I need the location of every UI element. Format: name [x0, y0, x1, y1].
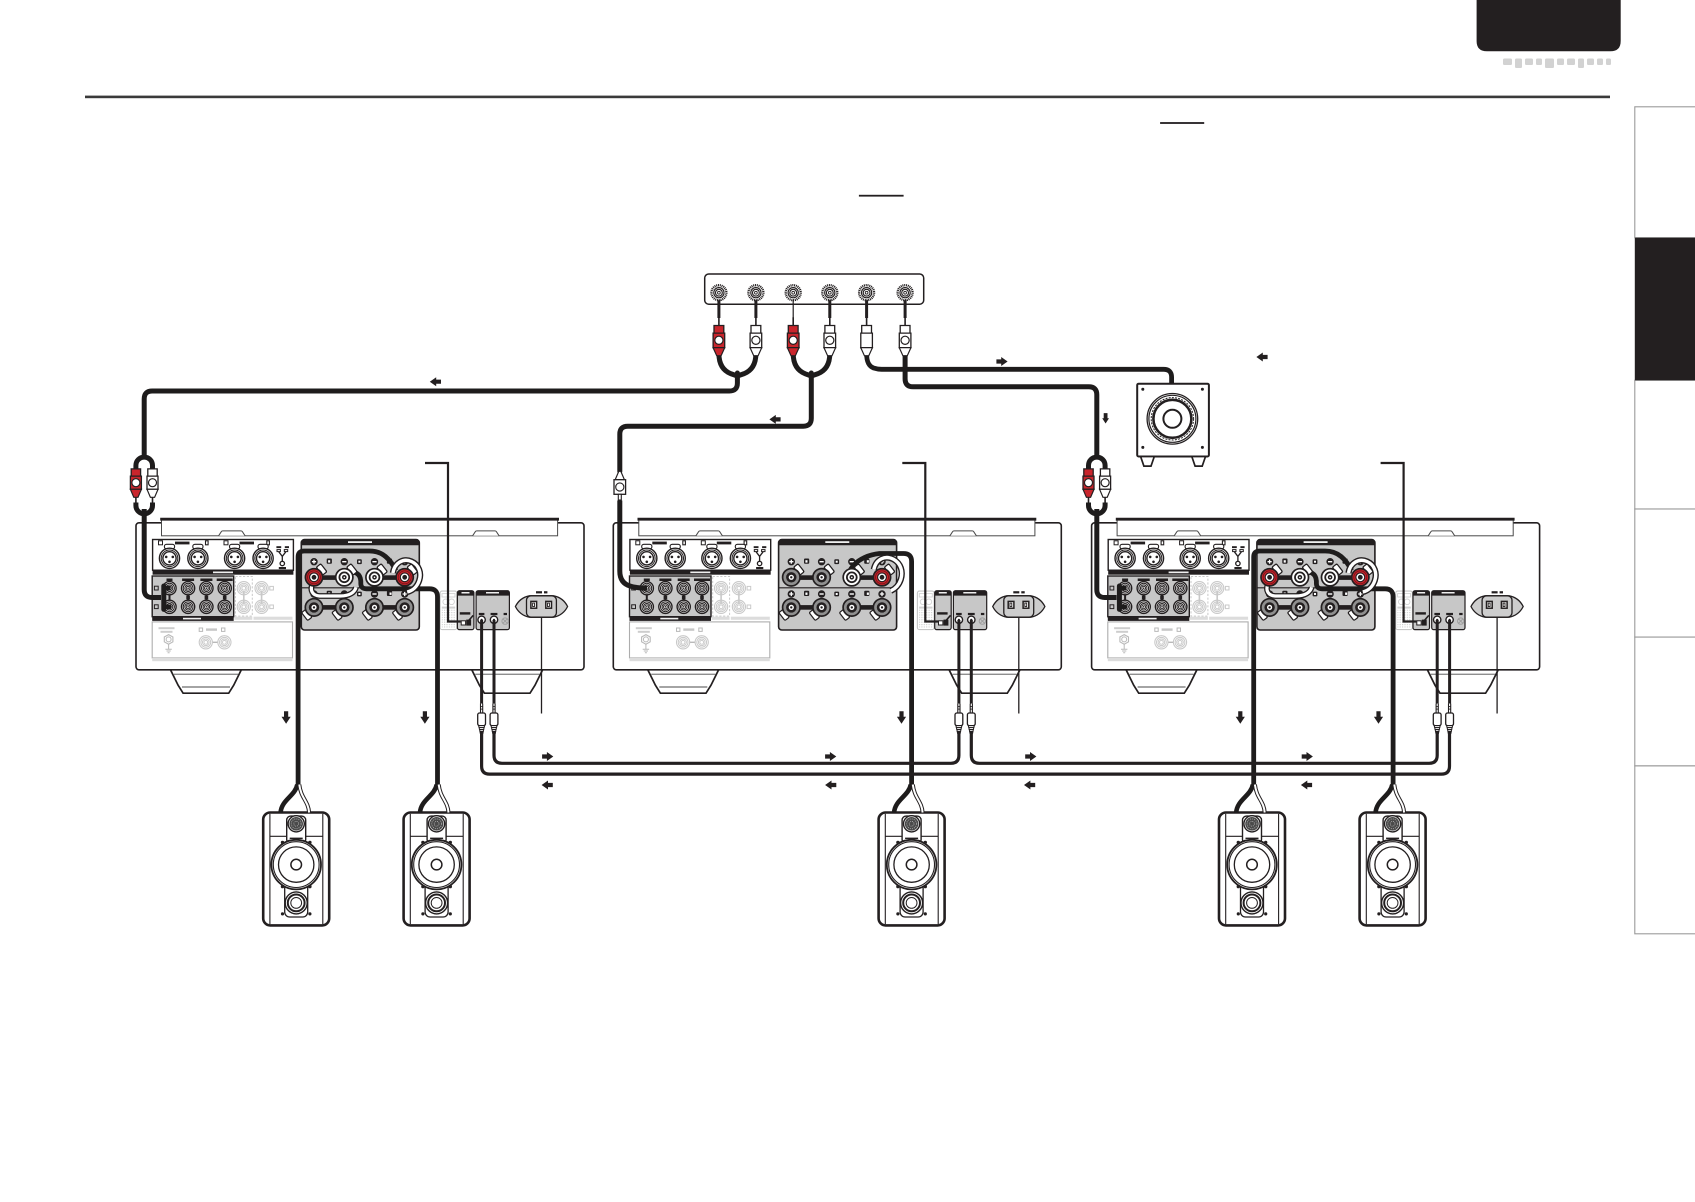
trigger cable amp1 in loop	[482, 731, 1450, 774]
down arrows above speakers	[282, 711, 291, 724]
input plug pair above amp 3	[1083, 457, 1111, 514]
speaker 4 wires	[1236, 785, 1253, 813]
trigger arrows right	[542, 752, 553, 761]
mono plug above amp 2	[614, 471, 626, 500]
speaker 2	[404, 813, 470, 926]
arrow right on route C	[996, 357, 1007, 366]
floating arrow left near subwoofer	[1256, 353, 1267, 362]
link underline mid	[859, 195, 904, 197]
black corner tab	[1477, 0, 1621, 51]
route D cable (to amp 3)	[905, 354, 1097, 457]
amp 2 speaker wires	[849, 554, 912, 787]
pre-out jacks	[711, 285, 726, 300]
amp 3 top posts	[1261, 564, 1373, 586]
amp 1 speaker wires	[298, 551, 437, 786]
trigger cable amp1 out to amp2 in	[494, 731, 959, 763]
route A cable (pair 1 to amp 1)	[144, 354, 756, 457]
pre-out plugs	[713, 317, 725, 355]
speaker 4	[1219, 813, 1285, 926]
route C cable (to subwoofer)	[867, 354, 1172, 385]
amplifier 1	[136, 463, 584, 733]
amplifier 2	[613, 463, 1061, 733]
arrow down beside route D	[1102, 413, 1109, 423]
amp 2 input cable into jack	[620, 501, 647, 589]
speaker 1	[263, 813, 329, 926]
trigger cable amp2 out to amp3 in	[971, 731, 1437, 763]
right sidebar active tab (black)	[1635, 238, 1695, 381]
arrow left on route A	[430, 377, 441, 386]
speaker 1 wires	[281, 785, 298, 813]
pre-out panel	[705, 274, 924, 304]
page header rule	[85, 96, 1610, 99]
trigger arrows left	[542, 781, 553, 790]
amp 1 top posts	[305, 564, 417, 586]
speaker 5 wires	[1376, 785, 1393, 813]
amplifier 3	[1092, 463, 1540, 733]
link underline top right	[1160, 122, 1204, 124]
amp 1 input cable into jacks	[144, 509, 171, 609]
faded nav text under tab	[1503, 59, 1611, 69]
speaker 5	[1360, 813, 1426, 926]
arrow left on route B	[769, 415, 780, 424]
speaker 2 wires	[420, 785, 437, 813]
amp 3 input cable into jacks	[1097, 509, 1127, 609]
speaker 3 wires	[894, 785, 911, 813]
amp 2 top posts	[783, 564, 895, 586]
route B cable (pair 2 to amp 2)	[620, 354, 830, 472]
amp 3 speaker wires	[1254, 551, 1393, 786]
pre-out jack stems	[719, 293, 905, 318]
input plug pair above amp 1	[130, 457, 158, 514]
right sidebar tab boxes	[1635, 107, 1695, 934]
speaker 3	[879, 813, 945, 926]
subwoofer	[1137, 384, 1209, 466]
